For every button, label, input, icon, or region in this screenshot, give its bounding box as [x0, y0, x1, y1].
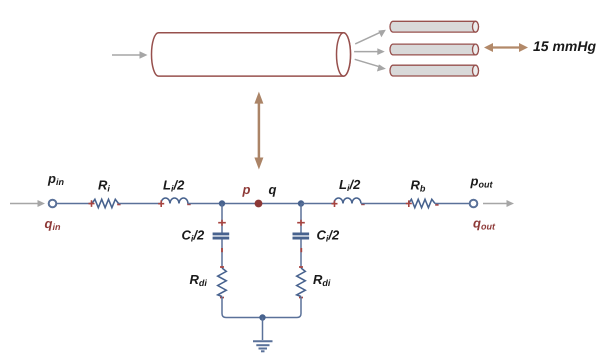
resistor R_i — [92, 199, 119, 207]
svg-text:qout: qout — [473, 216, 496, 232]
junction left — [219, 200, 225, 206]
svg-text:Rdi: Rdi — [190, 272, 208, 288]
wire capacitor to R_di left — [221, 239, 223, 268]
node p dot — [255, 200, 263, 208]
svg-text:Ci/2: Ci/2 — [317, 228, 341, 244]
current mark R_di right bottom — [299, 297, 303, 299]
branch arrow to capillary 2 — [354, 48, 385, 55]
svg-text:p: p — [242, 182, 251, 197]
output terminal — [470, 200, 478, 208]
svg-text:Ci/2: Ci/2 — [182, 228, 206, 244]
svg-text:Rb: Rb — [411, 178, 426, 194]
input terminal — [49, 200, 57, 208]
current mark L left — [158, 200, 164, 207]
wire terminal to R_i — [56, 203, 92, 205]
vertical coupling double arrow — [254, 92, 263, 170]
capillary cylinder 3 — [390, 65, 479, 76]
resistor R_b — [409, 199, 436, 207]
wire capacitor to R_di right — [300, 239, 302, 268]
capillary cylinder 2 — [390, 44, 479, 55]
branch arrow to capillary 1 — [355, 30, 386, 44]
pressure double arrow 15 mmHg — [484, 43, 528, 52]
svg-text:Li/2: Li/2 — [339, 177, 361, 193]
current mark R_i right — [117, 203, 120, 205]
flow arrow into vessel — [112, 51, 148, 58]
inductor L_i/2 right — [334, 198, 361, 204]
wire R_di right to bottom rail — [297, 297, 301, 318]
current mark R_i left — [89, 200, 95, 207]
current mark cap1 top — [218, 220, 226, 226]
current mark L2 left — [332, 200, 338, 207]
capacitor C_i/2 right — [293, 234, 310, 238]
wire L_i/2 to node p — [188, 203, 301, 205]
svg-text:Li/2: Li/2 — [163, 178, 185, 194]
svg-text:qin: qin — [45, 216, 61, 232]
wire node p down to capacitor — [221, 204, 223, 233]
wire R_b to output terminal — [435, 203, 470, 205]
wire L2 to R_b — [361, 203, 409, 205]
circuit output arrow — [483, 200, 514, 207]
inductor L_i/2 left — [161, 198, 188, 204]
resistor R_di right — [297, 268, 306, 297]
svg-text:pin: pin — [47, 171, 64, 187]
svg-text:Ri: Ri — [98, 178, 110, 194]
current mark L right — [187, 203, 191, 205]
current mark L2 right — [361, 203, 365, 205]
wire node q to L_i/2 right — [301, 203, 334, 205]
current mark between cap and R_di left — [221, 248, 223, 252]
wire R_i to L_i/2 — [119, 203, 162, 205]
current mark R_di left bottom — [220, 297, 224, 299]
resistor R_di left — [218, 268, 227, 297]
branch arrow to capillary 3 — [355, 59, 386, 71]
current mark R_di right top — [299, 266, 303, 268]
wire R_di left to bottom rail — [222, 297, 226, 318]
svg-text:pout: pout — [470, 174, 494, 190]
current mark between cap and R_di right — [300, 248, 302, 252]
capacitor C_i/2 left — [213, 234, 230, 238]
ground symbol — [253, 341, 273, 351]
svg-text:Rdi: Rdi — [313, 272, 331, 288]
current mark cap2 top — [297, 220, 305, 226]
current mark R_b right — [435, 204, 438, 206]
ground stem wire — [262, 318, 264, 341]
capillary cylinder 1 — [390, 21, 479, 32]
svg-text:15 mmHg: 15 mmHg — [533, 38, 596, 54]
wire node q down to capacitor — [300, 204, 302, 233]
current mark R_b left — [406, 200, 412, 207]
current mark R_di left top — [220, 266, 224, 268]
bottom rail wire — [226, 317, 297, 319]
vessel (large cylinder) — [152, 33, 351, 76]
svg-text:q: q — [269, 182, 277, 197]
circuit input arrow — [10, 200, 45, 207]
ground junction — [259, 314, 265, 320]
junction right — [298, 200, 304, 206]
